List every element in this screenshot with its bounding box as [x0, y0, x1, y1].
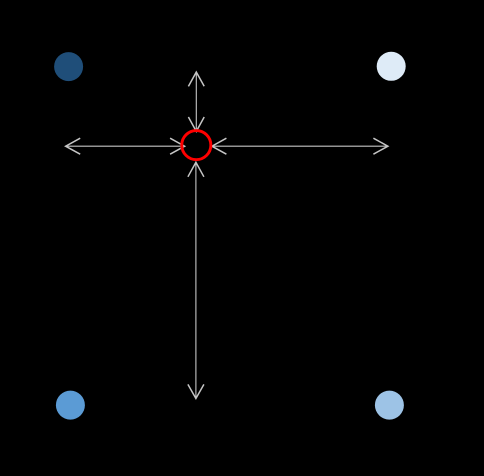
arrow right (double-headed): [212, 138, 388, 154]
arrowhead right inner: [212, 138, 227, 154]
wire left shaft: [66, 145, 184, 147]
wire right shaft: [212, 145, 388, 147]
arrow up (double-headed): [188, 72, 204, 131]
arrow down (double-headed): [188, 162, 204, 398]
arrowhead down outer: [188, 384, 204, 398]
arrowhead left inner: [170, 138, 185, 154]
red ring center (drawn over arrow tips): [182, 131, 211, 160]
arrowhead down inner: [188, 162, 204, 177]
wire up shaft: [195, 72, 197, 131]
circle bottom-right (light blue): [375, 391, 404, 420]
circle top-right (very light blue): [377, 52, 406, 81]
wire down shaft: [195, 162, 197, 398]
arrowhead right outer: [373, 138, 388, 154]
arrow left (double-headed): [66, 138, 185, 154]
arrowhead left outer: [66, 138, 81, 154]
arrowhead up outer: [188, 72, 204, 86]
circle bottom-left (medium blue): [56, 391, 85, 420]
circle top-left (dark blue): [54, 52, 83, 81]
arrowhead up inner: [188, 117, 204, 131]
